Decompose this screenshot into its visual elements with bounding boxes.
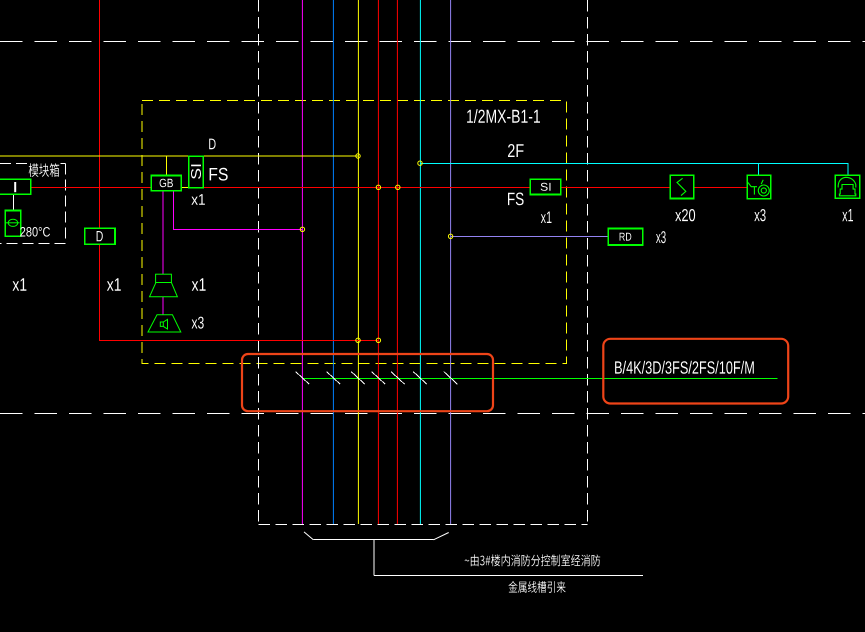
node highlight rounded rect 2 [603,339,788,404]
label cable designation [615,361,754,374]
wire cyan stub to hydrant button [758,163,760,175]
label x3 RD [656,231,666,243]
label module-box [29,163,60,177]
label x1 at GB [191,194,205,205]
speaker 1 projector [150,274,178,297]
node highlight rounded rect 1 [242,354,493,411]
wire magenta GB to speaker 1 [162,191,164,274]
wire lower boundary dashed [0,413,865,415]
wire riser yellow [357,0,359,524]
wire riser violet [450,0,452,524]
node module-box dashed enclosure [0,162,28,164]
wire riser magenta [301,0,303,524]
module SI vertical box [189,156,204,188]
wire yellow segment GB to SI [181,186,188,188]
wire yellow horizontal bus [0,155,358,157]
label x1 speaker 1 [192,278,206,291]
wire magenta speaker 1 to speaker 2 [162,297,164,315]
thermal detector 280C [5,211,20,237]
label x1 telephone [842,209,853,221]
wire top boundary dashed [0,41,865,43]
label x1 module column 1 [13,278,27,291]
label x20 flow switch [675,209,695,221]
wire violet run to RD [451,235,609,237]
label 1/2MX-B1-1 [467,109,540,123]
wire red segment SI2 to flow switch [561,186,670,188]
label x3 speaker 2 [192,317,204,329]
hydrant button box [747,175,771,199]
wire cyan 2F bus [420,163,848,175]
node shaft dashed enclosure left edge [257,0,259,524]
wire red feeder drop and bottom run [99,0,378,340]
module RD box [608,229,642,246]
wire riser cyan [419,0,421,524]
wire riser red 2 [396,0,398,524]
label x3 hydrant [754,209,765,221]
label note line 2 [509,581,566,593]
label x1 module column 2 [107,278,121,291]
wire red segment SI to SI2 [203,186,530,188]
label FS mid [508,193,524,206]
node junction donuts [300,154,453,343]
label note line 1 [465,554,601,566]
wire riser red 1 [377,0,379,524]
module GB box [151,176,181,191]
wire riser blue [332,0,334,524]
wire tick marks on green trunk [296,372,458,385]
label 2F [508,144,524,157]
fire telephone box [835,175,860,198]
wire green trunk line [302,378,777,380]
label 280C [20,227,50,237]
label D above GB [209,139,215,150]
wire red segment I-box to GB [31,186,151,188]
wire white stub I-box to thermal detector [12,194,14,210]
wire red segment flow switch to hydrant [694,186,748,188]
node shaft dashed enclosure right edge [586,0,588,524]
speaker 2 horn [148,315,181,332]
node shaft dashed enclosure bottom edge [258,523,587,525]
label FS at GB [210,168,228,181]
wire magenta GB to riser [173,191,302,230]
node 1/2MX-B1-1 dashed yellow enclosure [142,101,566,364]
module SI mid box [530,179,561,194]
module D box [85,228,115,244]
label x1 SI2 [541,212,552,224]
node leader bracket [304,532,643,576]
module I box [0,179,31,194]
wire yellow stub to GB [165,156,167,176]
flow switch box [670,175,694,198]
